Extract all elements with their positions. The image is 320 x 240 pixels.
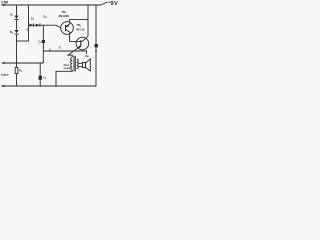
svg-text:Input: Input: [1, 73, 8, 77]
svg-text:9V: 9V: [111, 1, 119, 7]
svg-text:3.5M: 3.5M: [1, 0, 8, 4]
svg-text:used: used: [64, 66, 71, 70]
svg-text:BF115: BF115: [76, 28, 85, 32]
svg-text:S: S: [49, 47, 51, 51]
svg-text:2N4289: 2N4289: [58, 14, 69, 18]
svg-text:2in: 2in: [85, 54, 89, 58]
